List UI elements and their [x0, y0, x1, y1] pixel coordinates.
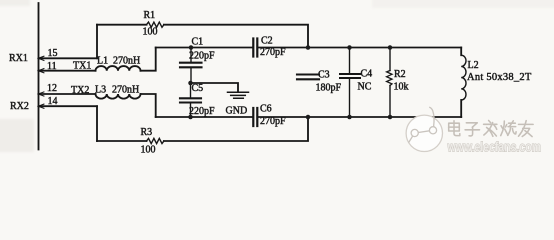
- designator L2: [468, 60, 479, 71]
- svg-text:C4: C4: [361, 69, 373, 80]
- value 270pF of C6: [260, 116, 286, 127]
- resistor R3: [147, 138, 164, 143]
- wire R3 rail left segment: [97, 140, 147, 142]
- junction R2 bottom rail: [388, 115, 393, 120]
- value 220pF of C5: [189, 106, 215, 117]
- value 180pF of C3: [316, 83, 342, 94]
- value Ant 50x38_2T of L2: [467, 72, 532, 83]
- net label TX2: [71, 85, 89, 96]
- value NC of C4: [358, 82, 372, 93]
- wire R1 rail right segment to node C3 top: [164, 25, 308, 48]
- inductor L1: [96, 66, 141, 71]
- pin number 11: [47, 61, 57, 72]
- char fa: [484, 121, 497, 137]
- wire pin11 to L1: [39, 70, 96, 72]
- designator R1: [144, 10, 156, 21]
- faint gray band top-right: [372, 0, 554, 8]
- antenna coil L2: [461, 48, 466, 118]
- wire pin12 to L3: [39, 93, 96, 95]
- pin 11 port arrow: [38, 69, 44, 73]
- svg-text:C5: C5: [192, 83, 204, 94]
- capacitor C5: [180, 83, 201, 117]
- svg-text:L3: L3: [95, 85, 106, 96]
- wire to ground: [191, 83, 239, 92]
- wire riser x97 up to R1 rail: [96, 25, 98, 59]
- svg-text:C3: C3: [318, 70, 330, 81]
- junction R2 top rail: [388, 45, 393, 50]
- pin number 15: [48, 48, 58, 59]
- capacitor C6: [253, 108, 257, 126]
- wire L3 to bottom rail corner: [141, 94, 156, 117]
- svg-text:10k: 10k: [394, 82, 409, 93]
- wire top rail right of C2: [258, 47, 461, 49]
- wire pin14 to R3 branch: [39, 105, 98, 107]
- designator C1: [192, 37, 204, 48]
- svg-text:GND: GND: [226, 106, 248, 117]
- designator C4: [361, 69, 373, 80]
- svg-text:C2: C2: [261, 36, 273, 47]
- svg-text:L2: L2: [468, 60, 479, 71]
- junction C3/R3 bottom rail: [306, 115, 311, 120]
- svg-text:270nH: 270nH: [113, 56, 140, 67]
- svg-text:11: 11: [47, 61, 57, 72]
- label RX1: [9, 53, 28, 64]
- resistor R1: [147, 22, 164, 27]
- svg-text:220pF: 220pF: [189, 106, 215, 117]
- designator C3: [318, 70, 330, 81]
- junction C1-top rail: [189, 45, 194, 50]
- svg-text:Ant 50x38_2T: Ant 50x38_2T: [467, 72, 532, 83]
- watermark logo circle: [406, 115, 442, 151]
- svg-text:C1: C1: [192, 37, 204, 48]
- svg-text:TX1: TX1: [73, 61, 91, 72]
- svg-text:RX1: RX1: [9, 53, 28, 64]
- svg-text:14: 14: [48, 96, 58, 107]
- capacitor C4: [340, 48, 360, 118]
- svg-text:TX2: TX2: [71, 85, 89, 96]
- value 270nH of L1: [113, 56, 140, 67]
- label GND: [226, 106, 248, 117]
- designator C5: [192, 83, 204, 94]
- wire R1 rail left segment: [97, 24, 147, 26]
- designator R2: [394, 69, 406, 80]
- designator R3: [141, 127, 153, 138]
- connector J1 body: [38, 3, 40, 150]
- designator C6: [260, 104, 272, 115]
- svg-text:15: 15: [48, 48, 58, 59]
- value 270nH of L3: [112, 85, 139, 96]
- inductor L3: [96, 94, 141, 99]
- svg-text:100: 100: [143, 27, 158, 38]
- capacitor C3: [297, 75, 319, 80]
- wire L1 to top rail corner: [141, 48, 156, 71]
- wire pin15 to node RX1A: [39, 57, 98, 59]
- junction C4 top rail: [347, 45, 352, 50]
- svg-text:270nH: 270nH: [112, 85, 139, 96]
- svg-text:270pF: 270pF: [260, 116, 286, 127]
- svg-text:R3: R3: [141, 127, 153, 138]
- junction C4 bottom rail: [347, 115, 352, 120]
- capacitor C2: [253, 39, 257, 57]
- watermark url www.elecfans.com: [447, 140, 541, 155]
- svg-text:L1: L1: [97, 56, 108, 67]
- designator L3: [95, 85, 106, 96]
- value 220pF of C1: [189, 51, 215, 62]
- value 10k of R2: [394, 82, 409, 93]
- ground: [228, 92, 249, 98]
- char dian: [449, 121, 460, 136]
- svg-text:www.elecfans.com: www.elecfans.com: [447, 140, 541, 155]
- label RX2: [10, 101, 29, 112]
- svg-text:R2: R2: [394, 69, 406, 80]
- svg-text:12: 12: [47, 83, 57, 94]
- faint gray block bottom-left: [0, 119, 34, 152]
- wire bottom rail right of C6: [258, 116, 461, 118]
- svg-text:NC: NC: [358, 82, 372, 93]
- net label TX1: [73, 61, 91, 72]
- pin 14 port arrow: [38, 104, 44, 108]
- pin 15 port arrow: [38, 56, 44, 60]
- junction C5 bottom rail: [188, 115, 193, 120]
- wire riser x97 down to R3 rail: [96, 106, 98, 141]
- pin number 12: [47, 83, 57, 94]
- watermark logo inner wire and nodes: [409, 107, 437, 143]
- char shao: [501, 121, 516, 136]
- svg-text:180pF: 180pF: [316, 83, 342, 94]
- faint gray tint top-left corner: [0, 0, 30, 6]
- wire R3 rail right segment to node C3 bottom: [164, 117, 308, 141]
- watermark text dianzifashaoyou: [449, 121, 533, 137]
- wire top rail left of C2: [156, 47, 253, 49]
- junction C1/C5/GND: [188, 81, 193, 86]
- designator C2: [261, 36, 273, 47]
- svg-text:100: 100: [141, 145, 156, 156]
- svg-text:C6: C6: [260, 104, 272, 115]
- capacitor C1: [180, 48, 202, 84]
- value 270pF of C2: [260, 47, 286, 58]
- junction R1/C3 top rail: [306, 45, 311, 50]
- pin number 14: [48, 96, 58, 107]
- pin 12 port arrow: [38, 92, 44, 96]
- designator L1: [97, 56, 108, 67]
- char zi: [465, 123, 479, 136]
- svg-text:RX2: RX2: [10, 101, 29, 112]
- value 100 of R1: [143, 27, 158, 38]
- char you: [519, 121, 534, 137]
- value 100 of R3: [141, 145, 156, 156]
- svg-text:220pF: 220pF: [189, 51, 215, 62]
- resistor R2: [387, 48, 392, 118]
- svg-text:270pF: 270pF: [260, 47, 286, 58]
- wire bottom rail left of C6: [156, 116, 253, 118]
- svg-text:R1: R1: [144, 10, 156, 21]
